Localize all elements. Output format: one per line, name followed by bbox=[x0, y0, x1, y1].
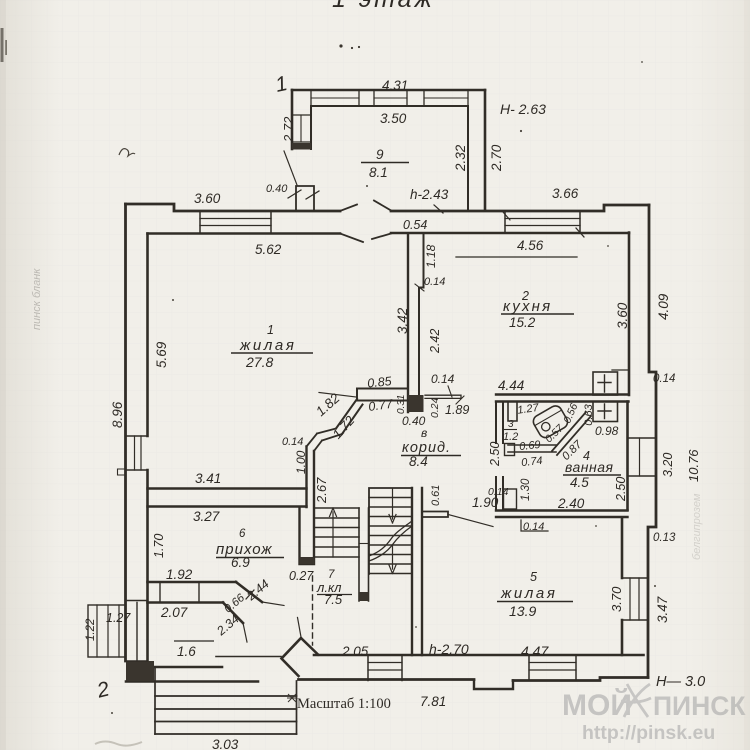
toilet partition end block bbox=[505, 444, 515, 456]
wall: bottom exterior inner face bbox=[314, 654, 644, 657]
porch 1.6 label bbox=[174, 640, 214, 642]
hallway south (exterior) wall bbox=[148, 582, 237, 603]
svg-text:2.05: 2.05 bbox=[341, 644, 369, 659]
svg-text:2.42: 2.42 bbox=[428, 329, 442, 354]
svg-text:5.69: 5.69 bbox=[154, 341, 169, 368]
svg-text:0.14: 0.14 bbox=[653, 373, 675, 385]
svg-text:2.70: 2.70 bbox=[489, 144, 504, 172]
svg-text:ванная: ванная bbox=[565, 459, 613, 475]
leader for 1.89 bbox=[456, 396, 464, 404]
svg-text:1.90: 1.90 bbox=[472, 495, 499, 510]
svg-text:0.63: 0.63 bbox=[583, 403, 595, 425]
main flight outline bbox=[369, 488, 412, 574]
svg-text:27.8: 27.8 bbox=[245, 354, 273, 370]
veranda top wall inner face bbox=[311, 105, 468, 107]
dark corner block bottom-left bbox=[126, 661, 154, 681]
svg-text:0.31: 0.31 bbox=[396, 395, 407, 414]
scale note bbox=[287, 694, 297, 702]
flue block lower with vent symbol bbox=[593, 402, 618, 422]
dim ticks at 0.40 column bbox=[288, 190, 319, 199]
svg-text:1.27: 1.27 bbox=[106, 611, 131, 625]
wall: right exterior outer face with jogs bbox=[648, 205, 656, 678]
entrance diagonal wall (0.66 / 2.44) bbox=[223, 582, 262, 623]
svg-text:3.66: 3.66 bbox=[552, 186, 579, 201]
squiggle top-left bbox=[119, 149, 135, 156]
svg-text:9: 9 bbox=[376, 147, 384, 162]
svg-text:5.62: 5.62 bbox=[255, 242, 282, 257]
svg-text:2.50: 2.50 bbox=[488, 442, 502, 467]
window W5 right wall (room 5): jambs and mullions bbox=[622, 578, 648, 620]
bathroom south wall bbox=[496, 511, 628, 518]
hallway south wall door block (1.92) bbox=[160, 582, 199, 603]
svg-text:0.54: 0.54 bbox=[403, 218, 427, 232]
svg-text:h-2.70: h-2.70 bbox=[429, 641, 469, 657]
veranda left wall bbox=[291, 90, 294, 149]
svg-text:1.6: 1.6 bbox=[177, 644, 196, 659]
svg-text:2.72: 2.72 bbox=[281, 116, 296, 143]
door leaf 1.82 (room1-corridor) bbox=[319, 393, 356, 398]
svg-text:1.18: 1.18 bbox=[424, 244, 438, 268]
svg-text:1 этаж: 1 этаж bbox=[332, 0, 435, 13]
veranda top wall outer face bbox=[292, 89, 485, 92]
left flight stringer bbox=[359, 508, 369, 601]
svg-text:3: 3 bbox=[508, 419, 514, 430]
svg-text:3.47: 3.47 bbox=[655, 596, 670, 623]
porch west door mid line and ticks bbox=[126, 601, 148, 662]
door jamb block bathroom SW bbox=[504, 489, 517, 509]
svg-text:1.2: 1.2 bbox=[503, 431, 518, 443]
svg-text:3.42: 3.42 bbox=[395, 307, 410, 334]
svg-text:0.14: 0.14 bbox=[523, 521, 544, 533]
main flight treads bbox=[369, 498, 412, 574]
svg-text:1: 1 bbox=[267, 323, 274, 337]
svg-text:Н— 3.0: Н— 3.0 bbox=[656, 674, 705, 690]
svg-text:0.98: 0.98 bbox=[595, 424, 619, 438]
left flight arrow bbox=[330, 508, 337, 557]
veranda top wall glazing line bbox=[311, 97, 468, 99]
svg-text:h-2.43: h-2.43 bbox=[410, 187, 449, 202]
0.14 bracket under bathroom south wall bbox=[521, 520, 548, 531]
corridor north wall (0.85/0.77) bbox=[357, 389, 408, 401]
porch front wall bbox=[126, 667, 258, 682]
left flight treads bbox=[314, 508, 359, 557]
wall: top exterior inner face bbox=[148, 232, 630, 235]
thin diagonal continuation bbox=[243, 623, 247, 642]
window W4 right wall (bathroom): jambs and mullion bbox=[628, 438, 657, 476]
svg-text:4.56: 4.56 bbox=[517, 238, 544, 253]
kitchen door thin wall (corridor side) bbox=[425, 395, 461, 398]
svg-text:0.13: 0.13 bbox=[653, 532, 676, 544]
misc dimension tick marks bbox=[434, 205, 584, 237]
svg-text:6.9: 6.9 bbox=[231, 555, 250, 570]
door leaf at entrance bbox=[262, 602, 284, 606]
svg-text:1.92: 1.92 bbox=[166, 567, 193, 582]
wall: left exterior outer face bbox=[124, 204, 127, 661]
svg-text:3.20: 3.20 bbox=[661, 453, 675, 477]
window W6 bottom wall (stairwell): jambs and glazing bbox=[368, 655, 402, 681]
svg-text:белгипрозем: белгипрозем bbox=[691, 493, 703, 560]
svg-text:Н- 2.63: Н- 2.63 bbox=[500, 101, 546, 117]
svg-text:4.44: 4.44 bbox=[498, 378, 524, 393]
svg-text:3.03: 3.03 bbox=[212, 737, 239, 750]
svg-text:кухня: кухня bbox=[503, 298, 552, 315]
stairwell door swing bbox=[298, 618, 302, 638]
svg-text:5: 5 bbox=[530, 570, 537, 584]
veranda 0.40 wall column bbox=[296, 186, 314, 210]
bathroom west wall segments bbox=[496, 402, 503, 511]
window W3 top wall (4.56): jambs and glazing lines bbox=[505, 211, 580, 233]
door leaf 1.90 bbox=[448, 515, 493, 527]
hallway north wall bbox=[148, 489, 307, 507]
washbasin bbox=[531, 404, 570, 440]
svg-text:8.96: 8.96 bbox=[110, 401, 125, 428]
svg-text:Масштаб 1:100: Масштаб 1:100 bbox=[297, 696, 391, 712]
wall stub below north wall bbox=[508, 402, 517, 422]
chamfer wall to bottom wall bbox=[282, 638, 319, 676]
svg-text:4.31: 4.31 bbox=[382, 78, 408, 93]
svg-text:0.40: 0.40 bbox=[402, 414, 426, 428]
svg-text:6: 6 bbox=[239, 528, 246, 540]
svg-text:4.09: 4.09 bbox=[656, 293, 671, 320]
window W2 top wall (3.60): jambs and glazing lines bbox=[200, 211, 271, 234]
svg-text:2.32: 2.32 bbox=[453, 144, 468, 172]
svg-text:0.74: 0.74 bbox=[521, 455, 544, 469]
window W7 bottom wall (room 5): jambs and glazing bbox=[529, 655, 576, 681]
svg-text:3.60: 3.60 bbox=[615, 302, 630, 329]
veranda left wall window ticks and mullion bbox=[292, 115, 311, 142]
wall: right exterior inner face segments bbox=[628, 233, 631, 396]
wall: top exterior outer face with step bbox=[126, 204, 341, 211]
svg-text:0.14: 0.14 bbox=[424, 276, 445, 288]
svg-text:2.67: 2.67 bbox=[314, 477, 329, 504]
wall: bottom exterior outer face with step and bump bbox=[299, 678, 649, 681]
svg-text:2.50: 2.50 bbox=[614, 477, 628, 502]
stair arrow lower bbox=[389, 545, 396, 574]
svg-text:в: в bbox=[421, 426, 427, 440]
window W1 outer sill stub bbox=[118, 469, 126, 475]
wall end cap dark bbox=[300, 557, 315, 564]
svg-text:http://pinsk.eu: http://pinsk.eu bbox=[582, 722, 715, 744]
svg-text:3.60: 3.60 bbox=[194, 191, 221, 206]
svg-text:ПИНСК: ПИНСК bbox=[653, 691, 746, 721]
svg-text:1.70: 1.70 bbox=[152, 534, 166, 558]
svg-text:13.9: 13.9 bbox=[509, 603, 536, 619]
svg-text:1.22: 1.22 bbox=[85, 618, 97, 641]
dashed projection line bbox=[312, 576, 314, 645]
svg-text:8.4: 8.4 bbox=[409, 454, 428, 469]
svg-text:7.81: 7.81 bbox=[420, 694, 446, 709]
leader for 0.14 bbox=[448, 386, 452, 397]
svg-text:0.24: 0.24 bbox=[429, 397, 441, 418]
svg-text:7.5: 7.5 bbox=[324, 592, 343, 607]
svg-text:0.61: 0.61 bbox=[430, 485, 442, 506]
svg-text:3.27: 3.27 bbox=[193, 509, 220, 524]
doorway flare veranda-to-house (0.54 passage) bbox=[340, 201, 391, 212]
stair break S-line bbox=[369, 521, 412, 556]
svg-text:4.47: 4.47 bbox=[521, 643, 549, 659]
kitchen window sill line bbox=[456, 256, 577, 258]
kitchen west wall bbox=[407, 234, 409, 413]
stair right wall bbox=[412, 488, 422, 655]
svg-text:0.40: 0.40 bbox=[266, 183, 288, 195]
tick on diagonal bbox=[246, 590, 254, 599]
wall: left exterior inner face bbox=[146, 234, 149, 662]
flue block upper with vent symbol bbox=[593, 372, 618, 395]
svg-text:0.85: 0.85 bbox=[367, 374, 393, 390]
veranda right wall bbox=[484, 90, 487, 210]
svg-text:4.5: 4.5 bbox=[570, 475, 589, 490]
veranda left wall end cap bbox=[292, 143, 311, 150]
dots under title bbox=[339, 44, 342, 47]
svg-text:0.14: 0.14 bbox=[431, 372, 455, 386]
svg-text:0.27: 0.27 bbox=[289, 569, 314, 583]
side steps (1.27/1.22) bbox=[88, 605, 126, 657]
leader diagonal from veranda wall to column bbox=[284, 151, 297, 185]
bathroom north wall (4.44) bbox=[496, 395, 629, 402]
svg-text:1.00: 1.00 bbox=[294, 450, 308, 474]
svg-text:3.70: 3.70 bbox=[609, 586, 624, 612]
svg-text:пинск бланк: пинск бланк bbox=[31, 268, 43, 330]
window W1 left wall: jamb ticks and mullions bbox=[126, 436, 148, 470]
svg-text:2.40: 2.40 bbox=[557, 496, 585, 511]
svg-text:0.69: 0.69 bbox=[519, 439, 542, 453]
svg-text:жилая: жилая bbox=[500, 585, 557, 602]
svg-text:3.41: 3.41 bbox=[195, 471, 221, 486]
svg-text:0.14: 0.14 bbox=[282, 436, 303, 448]
diagonal partition (0.87) bbox=[552, 412, 591, 455]
main porch steps (3.03) bbox=[155, 667, 297, 734]
diagonal wall room1/corridor (1.72) bbox=[336, 399, 363, 434]
porch threshold line bbox=[216, 656, 281, 658]
jog connecting diagonal to corridor west wall bbox=[307, 429, 343, 452]
stair arrow upper bbox=[389, 489, 396, 523]
svg-text:8.1: 8.1 bbox=[369, 165, 388, 180]
svg-text:1.89: 1.89 bbox=[445, 403, 469, 417]
svg-text:2.07: 2.07 bbox=[160, 605, 188, 620]
svg-text:10.76: 10.76 bbox=[686, 449, 701, 482]
toilet partition horizontal bbox=[508, 445, 556, 452]
kitchen west wall filled end bbox=[408, 395, 424, 412]
svg-text:жилая: жилая bbox=[239, 337, 296, 354]
wall stub 0.61 (stair to door) bbox=[422, 512, 448, 518]
veranda top wall mullions bbox=[311, 90, 468, 106]
svg-text:1.30: 1.30 bbox=[520, 478, 532, 501]
svg-text:МОЙ: МОЙ bbox=[562, 688, 632, 722]
svg-text:3.50: 3.50 bbox=[380, 111, 407, 126]
svg-text:15.2: 15.2 bbox=[509, 315, 536, 330]
corridor west / stair-hall wall bbox=[300, 447, 315, 565]
